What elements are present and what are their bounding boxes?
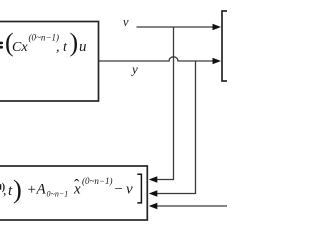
svg-text:−: −: [115, 182, 123, 198]
svg-text:v: v: [126, 182, 133, 198]
svg-text:v: v: [123, 15, 129, 29]
svg-text:ˆ: ˆ: [74, 177, 80, 194]
svg-text:0~n−1: 0~n−1: [47, 190, 69, 199]
svg-text:u: u: [79, 39, 87, 55]
svg-text:(0~n−1): (0~n−1): [29, 33, 59, 43]
svg-text:A: A: [36, 182, 47, 198]
svg-text:,: ,: [3, 183, 6, 198]
svg-text:): ): [70, 28, 79, 57]
svg-text:y: y: [130, 62, 138, 77]
svg-text:): ): [13, 174, 22, 204]
svg-text:Cx: Cx: [12, 40, 28, 55]
svg-text:(0~n−1): (0~n−1): [82, 176, 112, 186]
svg-text:, t: , t: [56, 40, 68, 55]
svg-text:+: +: [28, 182, 36, 198]
